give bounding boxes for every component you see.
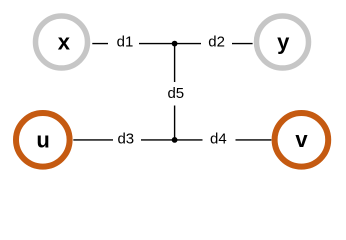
svg-text:d1: d1 (117, 34, 134, 51)
svg-text:x: x (58, 30, 71, 55)
label d3 (113, 128, 141, 150)
label d1 (108, 32, 139, 54)
junction dot (bottom) (172, 137, 178, 143)
wire: x to y (top horizontal) (92, 43, 252, 45)
node v (275, 113, 329, 167)
label d4 (203, 128, 236, 150)
wire: u to v (bottom horizontal) (73, 139, 271, 141)
node u (16, 113, 70, 167)
svg-text:d5: d5 (167, 85, 184, 102)
svg-text:d3: d3 (117, 131, 134, 148)
node y (257, 16, 309, 68)
label d2 (201, 32, 232, 54)
wire: junction to junction (vertical) (174, 44, 176, 140)
junction dot (top) (172, 41, 178, 47)
node x (36, 16, 88, 68)
svg-text:v: v (295, 127, 308, 152)
svg-text:d2: d2 (208, 34, 225, 51)
label d5 (164, 82, 187, 106)
svg-text:d4: d4 (210, 131, 227, 148)
svg-text:y: y (277, 30, 290, 55)
svg-text:u: u (36, 127, 49, 152)
